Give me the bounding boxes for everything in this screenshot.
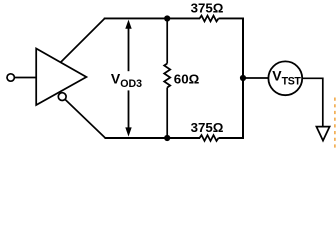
node junction dot (bottom rail / 60Ω)	[164, 135, 170, 141]
input terminal circle	[7, 74, 14, 81]
wire: top rail left segment	[104, 17, 200, 19]
wire: top rail right segment	[219, 17, 244, 19]
inverting output bubble	[58, 93, 66, 101]
VOD3 measurement arrow (down head)	[125, 90, 131, 136]
wire: input terminal to driver	[14, 77, 36, 79]
wire: inverting output diagonal to bottom rail	[65, 100, 105, 139]
wire: bottom rail left segment	[105, 137, 201, 139]
driver U1 (triangle buffer)	[36, 49, 86, 106]
resistor R2 375Ω (bottom) zigzag	[200, 135, 219, 141]
wire: right rail vertical	[242, 18, 244, 139]
wire: node to VTST source	[243, 77, 268, 79]
wire: noninverting output diagonal to top rail	[60, 19, 104, 63]
wire: 60Ω branch upper lead	[166, 19, 168, 64]
wire: VTST to ground drop	[302, 78, 323, 127]
wire: bottom rail right segment	[219, 137, 244, 139]
resistor R1 375Ω (top) zigzag	[200, 16, 219, 22]
svg-text:375Ω: 375Ω	[191, 0, 224, 15]
wire: 60Ω branch lower lead	[166, 88, 168, 139]
node junction dot (right rail / VTST tap)	[240, 75, 246, 81]
label VTST	[272, 68, 301, 88]
ground symbol	[316, 127, 329, 141]
value label 375Ω (top)	[191, 0, 224, 15]
label VOD3	[111, 71, 142, 90]
revision change bar (orange dashed)	[334, 98, 336, 151]
value label 375Ω (bottom)	[191, 120, 224, 135]
VOD3 measurement arrow (up head)	[125, 20, 131, 72]
svg-text:60Ω: 60Ω	[174, 72, 200, 87]
value label 60Ω	[174, 72, 200, 87]
node junction dot (top rail / 60Ω)	[164, 15, 170, 21]
resistor R3 60Ω (middle, vertical) zigzag	[164, 64, 170, 88]
svg-text:375Ω: 375Ω	[191, 120, 224, 135]
source V TST circle	[268, 61, 302, 95]
